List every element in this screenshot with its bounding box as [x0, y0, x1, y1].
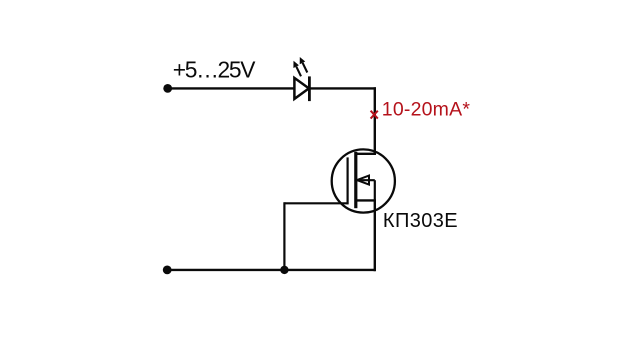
wire: gate lead to left loop	[284, 202, 347, 204]
wire: LED cathode to top-right corner	[309, 87, 376, 89]
node: supply terminal (top-left)	[163, 84, 172, 93]
LED cathode bar	[308, 76, 311, 101]
svg-text:КП303Е: КП303Е	[383, 210, 458, 232]
LED anode triangle	[294, 78, 309, 99]
source lead (pin)	[356, 199, 376, 201]
svg-text:+5…25V: +5…25V	[173, 57, 256, 83]
LED emission arrow 1	[293, 61, 301, 77]
node: gate/source junction dot	[280, 266, 288, 274]
LED emission arrow 2	[300, 57, 308, 73]
node: bottom-left terminal	[163, 266, 172, 275]
wire: gate loop vertical down to bottom rail	[283, 202, 285, 270]
channel line	[354, 152, 357, 208]
wire: supply terminal to LED anode	[168, 87, 296, 89]
transistor body circle	[332, 149, 395, 212]
substrate arrow head (hollow)	[357, 176, 369, 185]
wire: bottom rail	[167, 269, 375, 271]
drain lead (pin)	[356, 153, 376, 155]
gate electrode line	[347, 157, 349, 204]
wire: corner down to transistor drain	[374, 87, 376, 154]
node: current test point x mark	[371, 111, 378, 119]
LED VD1	[293, 57, 309, 101]
substrate arrow shaft	[357, 179, 375, 181]
substrate-to-source tie	[374, 180, 376, 200]
svg-text:10-20mA*: 10-20mA*	[382, 99, 471, 121]
transistor VT1 KP303E (JFET)	[332, 149, 395, 212]
wire: source down to bottom rail	[374, 200, 376, 271]
